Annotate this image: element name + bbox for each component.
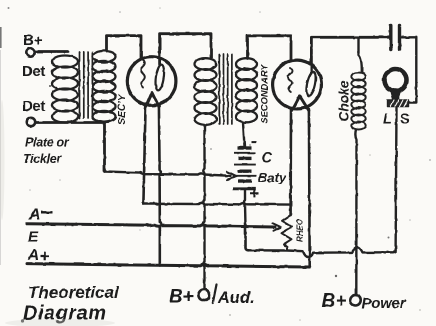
svg-text:B+: B+	[23, 32, 43, 49]
plate V1	[154, 64, 165, 91]
svg-text:Choke: Choke	[337, 80, 352, 122]
wire T2 primary bottom to B+ Aud	[203, 125, 204, 289]
svg-text:C: C	[262, 151, 273, 167]
svg-text:A: A	[28, 207, 41, 224]
arrow to rheostat	[273, 223, 281, 230]
wire filament leg right V2	[308, 109, 311, 267]
tube V1	[127, 57, 176, 106]
capacitor C2 top right	[389, 26, 392, 50]
plate V2	[305, 71, 318, 97]
svg-text:Det: Det	[22, 98, 45, 115]
grid V2	[288, 68, 292, 92]
filament V1	[146, 93, 159, 107]
transformer T2 core	[219, 54, 232, 124]
terminal B+	[26, 48, 34, 56]
wire plate V2 to cap	[311, 37, 388, 72]
svg-text:RHEO: RHEO	[296, 218, 305, 242]
svg-text:S: S	[400, 112, 410, 128]
wire filament link H2	[143, 203, 290, 205]
wire stub A- to rheostat bus	[246, 226, 249, 251]
wire LS down	[394, 107, 397, 252]
transformer T1 secondary	[93, 51, 116, 122]
wire filament leg left V2	[289, 109, 292, 215]
wire	[36, 123, 105, 172]
svg-text:Baty: Baty	[258, 170, 287, 185]
wire	[35, 50, 68, 53]
wire filament leg right V1	[159, 105, 161, 266]
wire filament leg left V1	[143, 105, 145, 204]
loudspeaker LS	[385, 69, 407, 91]
transformer T1 core	[80, 52, 93, 118]
bus A- L1	[27, 224, 275, 227]
svg-text:SEC’Y: SEC’Y	[117, 93, 128, 124]
label slash of Aud	[213, 285, 217, 304]
wire grid return H1 with arrow to battery	[105, 172, 231, 176]
transformer T2 primary	[195, 58, 217, 125]
terminal B+ Aud	[198, 289, 209, 300]
svg-text:E: E	[28, 229, 39, 246]
svg-text:L: L	[383, 112, 392, 128]
svg-text:Det: Det	[22, 63, 45, 80]
tube V2	[273, 60, 322, 109]
rheostat RHEO	[282, 215, 293, 250]
svg-text:Plate or: Plate or	[25, 136, 70, 150]
label minus battery	[252, 142, 257, 144]
LS neck	[390, 90, 401, 100]
terminal Det (Plate or Tickler)	[27, 118, 35, 126]
svg-text:SECONDARY: SECONDARY	[260, 63, 270, 123]
svg-text:B+: B+	[322, 291, 347, 312]
wire cap to right down to LS	[402, 37, 417, 102]
bus A+ L2	[27, 264, 310, 267]
transformer T2 secondary	[236, 58, 257, 122]
svg-text:A: A	[27, 247, 39, 264]
svg-text:Power: Power	[362, 295, 407, 312]
filament V2	[292, 96, 309, 111]
transformer T1 primary	[52, 56, 78, 123]
label plus battery	[250, 189, 259, 197]
svg-text:Tickler: Tickler	[23, 152, 62, 166]
grid V1	[141, 60, 145, 88]
terminal B+ Power	[350, 295, 360, 305]
wire grid V1	[107, 36, 142, 58]
wire grid V2	[248, 36, 292, 60]
wire plate V1 to T2	[160, 34, 211, 65]
wire LS return W5	[249, 247, 396, 257]
svg-text:Aud.: Aud.	[217, 289, 255, 307]
arrow to battery	[228, 172, 237, 180]
svg-text:Theoretical: Theoretical	[28, 283, 120, 302]
wire choke bottom to B+ Power	[355, 130, 356, 295]
LS base	[388, 100, 409, 107]
battery Baty C-cells	[233, 148, 257, 189]
wire T2 secondary bottom to battery	[243, 123, 245, 147]
wire battery bottom to A- bus	[244, 190, 246, 226]
choke L1 lead top	[359, 37, 362, 72]
svg-text:B+: B+	[169, 287, 194, 308]
choke L1	[351, 73, 365, 130]
